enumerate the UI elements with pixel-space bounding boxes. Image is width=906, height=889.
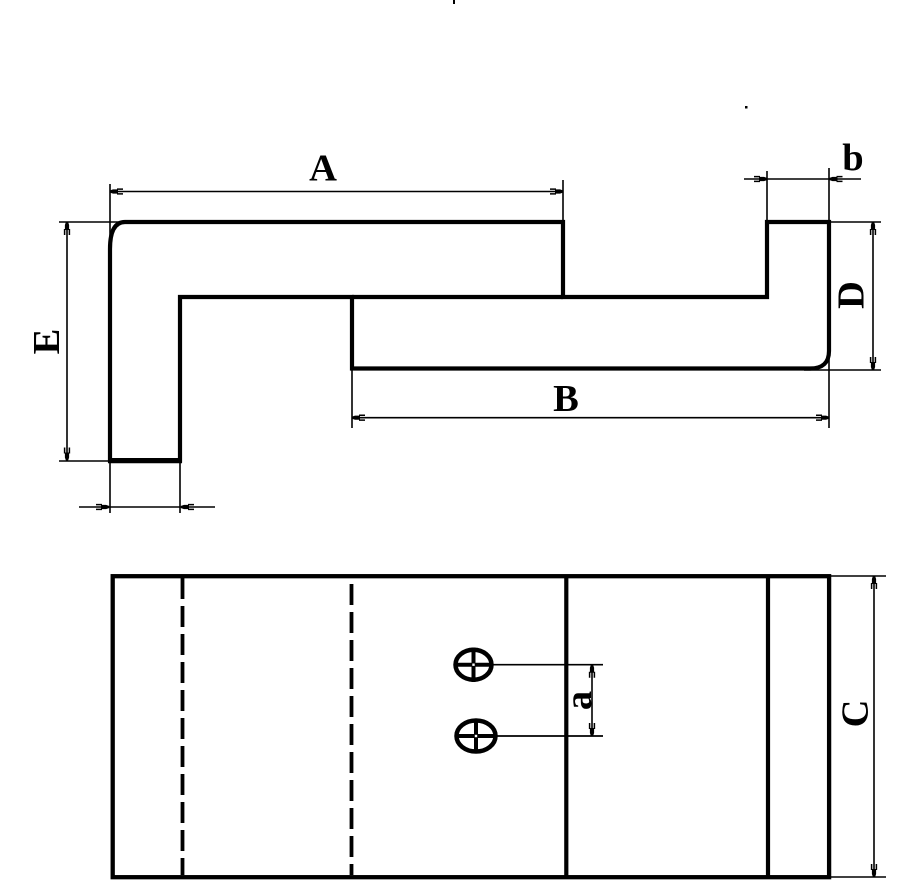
dimension C top extension line [831,575,886,577]
svg-text:B: B [553,378,579,420]
leg width extension line right [179,461,181,513]
dimension E line [66,222,68,461]
dimension B right extension line [828,351,830,428]
dimension A extension line right [562,180,564,224]
svg-text:A: A [309,148,337,190]
dimension a line [591,665,593,736]
dimension b line [744,178,861,180]
dimension A line [110,191,563,193]
dimension C line [873,576,875,877]
svg-text:D: D [830,281,872,309]
dimension b extension line left [766,171,768,224]
svg-text:a: a [558,691,600,710]
svg-text:C: C [834,700,876,728]
leg width extension line left [109,461,111,513]
flat pattern rectangle [113,576,829,877]
dimension B line [352,417,829,419]
dimension E bottom extension line [59,460,110,462]
dimension B left extension line [351,369,353,429]
dimension D line [872,222,874,370]
hole 2 [455,719,497,754]
hole 1 [454,648,494,683]
svg-text:b: b [842,137,863,179]
bracket outline (side view) [110,222,829,461]
leg width dimension line [79,506,215,508]
bend line dashed right [350,578,354,875]
hole 2 leader line [496,735,604,737]
svg-text:E: E [26,329,68,355]
bend line dashed left [181,578,185,875]
speck artifact right [745,106,748,109]
dimension b extension line right [828,168,830,224]
speck artifact top [453,0,455,4]
dimension D top extension line [829,221,881,223]
mid web line segment [352,295,563,299]
dimension E top extension line [59,221,128,223]
dimension A extension line left [109,184,111,250]
bend line solid left [564,576,568,877]
dimension D bottom extension line [804,369,881,371]
bend line solid right [766,576,770,877]
leg bottom edge (thicker) [108,458,182,463]
hole 1 leader line [492,664,604,666]
dimension C bottom extension line [831,876,886,878]
